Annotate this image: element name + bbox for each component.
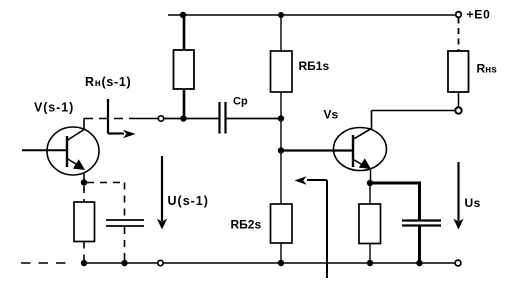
node B junction xyxy=(278,115,284,121)
node output terminal bottom left xyxy=(158,260,163,265)
current arrow at V(s-1) collector xyxy=(107,99,109,134)
wire RB2s bottom stem xyxy=(280,243,282,263)
wire node A to Cp xyxy=(183,118,219,120)
wire Vs base xyxy=(281,149,352,151)
node Vs emitter resistor rail junction xyxy=(367,260,373,266)
resistor RH(s-1) xyxy=(174,50,195,89)
node output terminal bottom right xyxy=(455,260,461,266)
svg-text:Rнs: Rнs xyxy=(477,62,498,76)
wire Cp to node B xyxy=(227,118,282,120)
node junction top rail / RB1s xyxy=(278,12,284,18)
wire bottom rail dashed left xyxy=(21,262,67,264)
node input terminal xyxy=(158,116,163,121)
wire RB1s top stem xyxy=(280,15,282,51)
wire RB1s bottom stem xyxy=(280,92,282,119)
svg-text:Vs: Vs xyxy=(324,108,339,122)
wire RH(s-1) bottom stem xyxy=(183,89,186,119)
node capacitor rail junction right xyxy=(416,260,422,266)
wire V(s-1) emitter resistor to rail dashed xyxy=(83,242,85,264)
svg-text:+E0: +E0 xyxy=(467,8,491,22)
wire input terminal to node A xyxy=(164,118,183,120)
transistor Vs xyxy=(334,111,387,182)
node bypass capacitor rail junction xyxy=(121,260,127,266)
node A junction xyxy=(180,115,186,121)
svg-text:RБ2s: RБ2s xyxy=(231,218,262,232)
wire Vs emitter resistor bottom stem xyxy=(369,244,371,264)
capacitor V(s-1) emitter bypass xyxy=(106,219,144,221)
wire RH(s-1) top stem xyxy=(183,15,186,50)
voltage arrow U(s-1) xyxy=(161,156,163,221)
wire V(s-1) emitter dashed right xyxy=(87,182,125,184)
node junction top rail / RH(s-1) xyxy=(180,12,186,18)
wire capacitor bottom stem thick xyxy=(418,226,421,263)
svg-text:Rн(s-1): Rн(s-1) xyxy=(85,75,131,89)
node V(s-1) emitter rail junction xyxy=(81,260,87,266)
wire capacitor top stem thick xyxy=(418,183,421,220)
voltage arrow Us xyxy=(457,162,459,221)
resistor RB2s xyxy=(271,204,293,243)
node RHs bottom terminal xyxy=(455,107,461,113)
wire V(s-1) emitter dashed down xyxy=(83,173,85,202)
transistor V(s-1) xyxy=(22,119,99,176)
resistor RB1s xyxy=(271,51,293,92)
node RB2s rail junction xyxy=(278,260,284,266)
wire Vs emitter to resistor xyxy=(369,183,371,204)
svg-text:RБ1s: RБ1s xyxy=(299,59,330,73)
capacitor Cp xyxy=(218,102,220,134)
svg-text:U(s-1): U(s-1) xyxy=(168,194,209,208)
wire top supply rail xyxy=(168,14,456,16)
wire Vs emitter to capacitor thick xyxy=(370,182,421,185)
svg-text:Cp: Cp xyxy=(233,96,248,108)
node Vs base junction xyxy=(278,147,284,153)
capacitor Vs emitter bypass xyxy=(402,219,441,221)
resistor Vs emitter xyxy=(359,204,381,244)
wire RHs bottom stem xyxy=(458,92,460,107)
resistor V(s-1) emitter xyxy=(74,202,95,242)
svg-text:Us: Us xyxy=(465,196,481,210)
wire V(s-1) collector dashed to input node xyxy=(84,118,132,120)
node Vs emitter junction xyxy=(367,180,373,186)
wire RHs top dashed xyxy=(458,18,460,52)
wire bottom rail xyxy=(84,262,455,264)
svg-text:V(s-1): V(s-1) xyxy=(34,101,74,115)
wire bypass capacitor to rail dashed xyxy=(124,227,126,263)
resistor RHs xyxy=(448,51,469,92)
wire dashed down to bypass capacitor (s-1) xyxy=(124,183,126,220)
feedback arrow xyxy=(326,180,328,278)
wire node B down to RB2s xyxy=(280,119,282,205)
node +E0 terminal xyxy=(456,12,462,18)
wire Vs collector top xyxy=(372,110,456,112)
node V(s-1) emitter junction xyxy=(81,179,87,185)
